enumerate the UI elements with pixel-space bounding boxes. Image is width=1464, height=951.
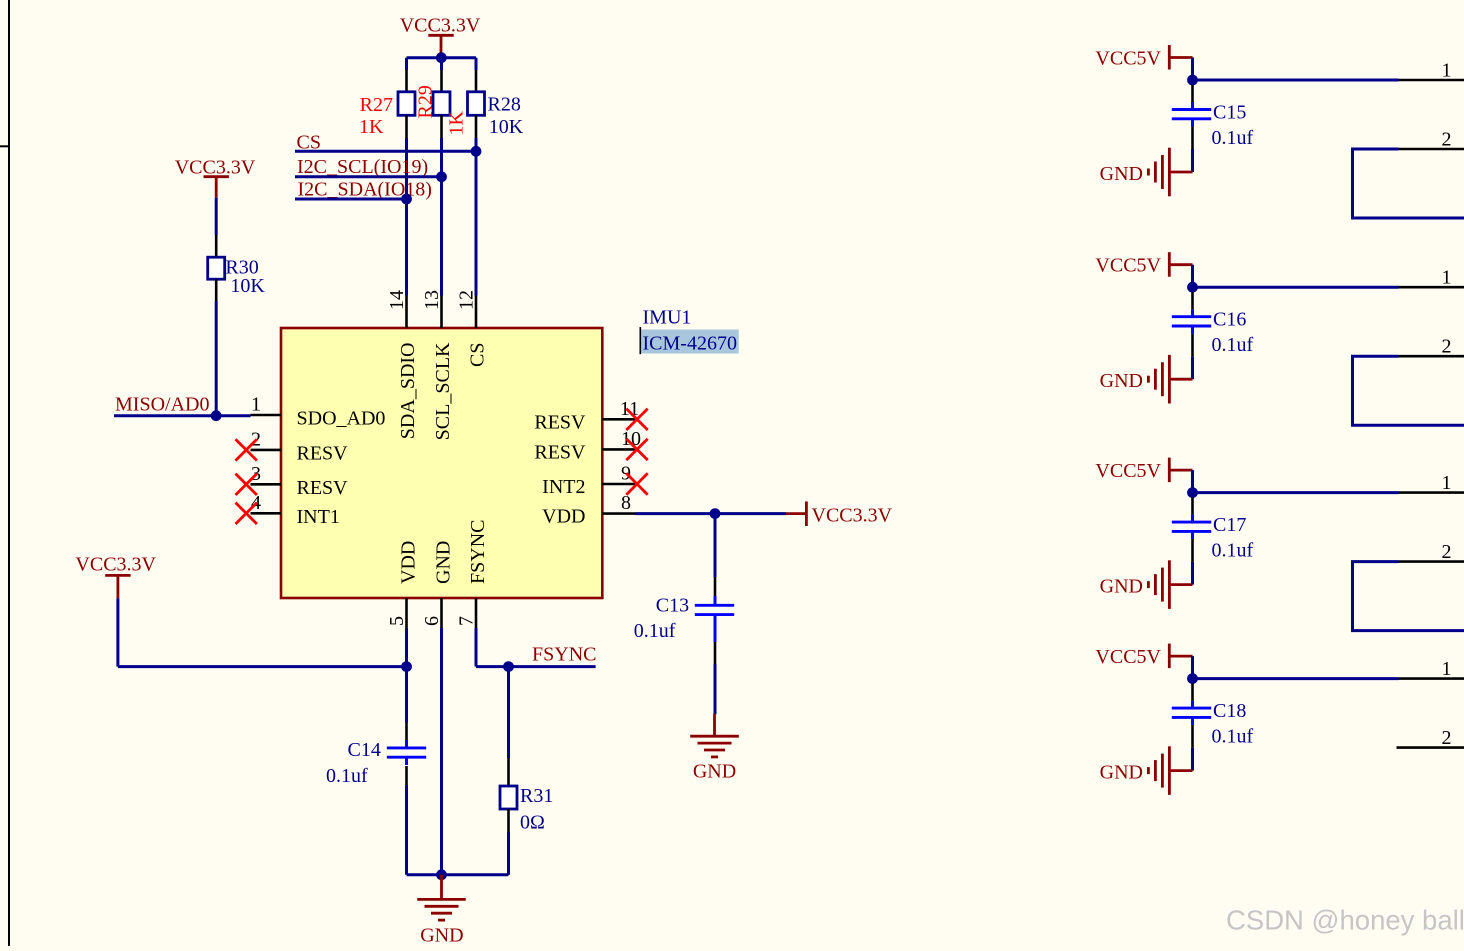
junction FSYNC-R31 <box>503 661 514 672</box>
junction VCC5V-C15 <box>1187 75 1198 86</box>
wire pin 1 net <box>1193 79 1399 82</box>
wire C13 to ground <box>714 664 717 715</box>
svg-text:R28: R28 <box>488 94 521 116</box>
wire R30 to MISO <box>215 301 218 416</box>
svg-text:R29: R29 <box>414 85 436 118</box>
resistor R27 <box>398 92 415 116</box>
svg-text:C16: C16 <box>1213 309 1246 331</box>
junction CS-R28 <box>471 146 482 157</box>
pin 13 line <box>440 296 443 329</box>
capacitor C13 <box>695 604 734 607</box>
power VCC3.3V stem (right) <box>786 512 806 515</box>
svg-text:0.1uf: 0.1uf <box>634 620 676 642</box>
pin 2 line (connector) <box>1397 746 1464 749</box>
power VCC5V stem (C15) <box>1169 56 1192 59</box>
wire C15 to ground <box>1191 149 1194 172</box>
wire junction to C13 <box>714 514 717 577</box>
svg-text:C18: C18 <box>1213 700 1246 722</box>
wire pin5 to junction <box>405 628 408 667</box>
wire pin 1 net <box>1193 286 1399 289</box>
no-connect X <box>626 473 647 494</box>
pin 9 line <box>602 483 635 486</box>
svg-text:VCC5V: VCC5V <box>1095 48 1161 70</box>
svg-text:VDD: VDD <box>542 506 585 528</box>
svg-text:2: 2 <box>1442 129 1452 151</box>
power VCC3.3V bar (top) <box>428 34 453 37</box>
wire top bus <box>407 56 477 59</box>
sheet border line <box>8 0 10 946</box>
svg-text:12: 12 <box>455 290 477 310</box>
wire net CS <box>295 150 476 153</box>
junction VCC5V-C16 <box>1187 282 1198 293</box>
pin 12 line <box>475 296 478 329</box>
pin 2 line <box>251 449 282 452</box>
junction SCL-R29 <box>436 171 447 182</box>
pin C14 top <box>405 722 408 741</box>
wire C17 to ground <box>1191 562 1194 585</box>
svg-text:7: 7 <box>455 616 477 626</box>
pin 7 line <box>475 598 478 628</box>
power VCC5V stem (C16) <box>1169 263 1192 266</box>
pin R31 top <box>507 758 510 786</box>
svg-text:INT1: INT1 <box>297 506 340 528</box>
svg-text:GND: GND <box>1100 370 1143 392</box>
junction top bus <box>436 52 447 63</box>
pin 14 line <box>405 296 408 329</box>
no-connect X <box>626 409 647 430</box>
svg-text:IMU1: IMU1 <box>643 307 692 329</box>
pin R30 bottom <box>215 279 218 301</box>
svg-text:I2C_SDA(IO18): I2C_SDA(IO18) <box>298 179 432 201</box>
pin R31 bottom <box>507 809 510 832</box>
pin stub C17 bottom <box>1191 531 1194 539</box>
svg-text:SDO_AD0: SDO_AD0 <box>297 408 386 430</box>
capacitor C14 <box>387 746 426 749</box>
pin 1 line <box>251 414 282 417</box>
pin 1 line (connector) <box>1399 286 1464 289</box>
svg-text:VCC3.3V: VCC3.3V <box>400 15 481 37</box>
svg-text:1: 1 <box>1442 472 1452 494</box>
wire column R28 to pin12 <box>475 138 478 296</box>
wire VCC3.3V to pin5 <box>118 665 407 668</box>
wire pin7 down <box>475 628 478 667</box>
wire bus drop <box>405 58 408 70</box>
svg-text:C13: C13 <box>656 595 689 617</box>
wire pin8 to junction <box>636 512 787 515</box>
svg-text:GND: GND <box>433 541 455 584</box>
svg-text:SCL_SCLK: SCL_SCLK <box>432 342 454 440</box>
pin 6 line <box>440 598 443 628</box>
power VCC3.3V bar (right) <box>805 502 808 527</box>
capacitor C17 <box>1172 521 1211 524</box>
pin C13 bottom <box>714 642 717 664</box>
pin C15 bottom <box>1191 127 1194 150</box>
ground stem (C18) <box>1169 769 1192 772</box>
svg-text:C17: C17 <box>1213 514 1246 536</box>
svg-text:VCC5V: VCC5V <box>1095 646 1161 668</box>
IC U-IMU1 body <box>281 328 602 598</box>
pin stub C17 top <box>1191 515 1194 523</box>
pin stub C13 top <box>714 596 717 605</box>
power VCC5V stem (C18) <box>1169 655 1192 658</box>
pin 2 line (connector) <box>1399 560 1464 563</box>
junction VCC5V-C18 <box>1187 673 1198 684</box>
junction SDA-R27 <box>401 194 412 205</box>
pin 4 line <box>251 512 282 515</box>
pin resistor top <box>405 70 408 92</box>
wire net I2C_SDA <box>295 198 407 201</box>
junction VDD-C13 <box>710 508 721 519</box>
text caret <box>639 327 641 354</box>
svg-text:2: 2 <box>1442 336 1452 358</box>
ground stem (bottom) <box>440 875 443 900</box>
pin 2 line (connector) <box>1399 148 1464 151</box>
svg-text:2: 2 <box>1442 541 1452 563</box>
pin stub C14 top <box>405 740 408 748</box>
wire C16 to ground <box>1191 356 1194 379</box>
resistor R28 <box>468 92 485 116</box>
svg-text:13: 13 <box>421 290 443 310</box>
svg-text:0.1uf: 0.1uf <box>1212 334 1254 356</box>
junction VDD-C14 <box>401 661 412 672</box>
svg-text:R31: R31 <box>520 785 553 807</box>
power VCC5V bar (C18) <box>1168 644 1171 669</box>
pin C18 bottom <box>1191 725 1194 748</box>
ground stem (C17) <box>1169 583 1192 586</box>
svg-text:FSYNC: FSYNC <box>532 644 596 666</box>
pin stub C15 top <box>1191 102 1194 110</box>
svg-text:1: 1 <box>251 394 261 416</box>
svg-text:GND: GND <box>420 925 463 947</box>
svg-text:10K: 10K <box>489 116 524 138</box>
wire bottom rail <box>407 873 509 876</box>
pin 8 line <box>602 512 635 515</box>
svg-text:0.1uf: 0.1uf <box>1212 127 1254 149</box>
wire pin6 to bottom rail <box>440 628 443 875</box>
pin 3 line <box>251 483 282 486</box>
wire R31 to bottom rail <box>507 832 510 875</box>
svg-text:SDA_SDIO: SDA_SDIO <box>397 343 419 440</box>
junction VCC5V-C17 <box>1187 487 1198 498</box>
wire VCC5V to junction <box>1191 58 1194 81</box>
pin stub C16 top <box>1191 309 1194 317</box>
pin 1 line (connector) <box>1399 79 1464 82</box>
power VCC5V stem (C17) <box>1169 469 1192 472</box>
no-connect X <box>236 503 257 524</box>
resistor R31 <box>500 786 517 809</box>
svg-text:VCC5V: VCC5V <box>1095 255 1161 277</box>
svg-text:9: 9 <box>621 463 631 485</box>
svg-text:RESV: RESV <box>297 477 349 499</box>
wire bus drop <box>440 58 443 70</box>
ground (C13) <box>690 735 739 738</box>
svg-text:2: 2 <box>1442 727 1452 749</box>
svg-text:R27: R27 <box>360 94 393 116</box>
resistor R29 <box>433 92 450 116</box>
wire FSYNC to R31 <box>507 667 510 758</box>
power VCC5V bar (C16) <box>1168 252 1171 277</box>
svg-text:6: 6 <box>421 616 443 626</box>
pin C15 top <box>1191 85 1194 102</box>
pin C16 top <box>1191 292 1194 309</box>
svg-text:C15: C15 <box>1213 102 1246 124</box>
no-connect X <box>236 439 257 460</box>
wire net MISO/AD0 <box>114 414 251 417</box>
pin stub C18 bottom <box>1191 717 1194 725</box>
pin resistor top <box>440 70 443 92</box>
no-connect X <box>626 439 647 460</box>
wire VCC5V to junction <box>1191 265 1194 288</box>
svg-text:RESV: RESV <box>534 441 586 463</box>
ground (C15) <box>1168 148 1171 197</box>
pin C13 top <box>714 577 717 596</box>
svg-text:1: 1 <box>1442 60 1452 82</box>
pin C17 top <box>1191 498 1194 515</box>
wire pin 1 net <box>1193 491 1399 494</box>
wire junction to C14 <box>405 667 408 722</box>
svg-text:CSDN @honey ball: CSDN @honey ball <box>1226 905 1464 936</box>
power VCC5V bar (C17) <box>1168 458 1171 483</box>
power VCC3.3V bar (bottom left) <box>105 574 130 577</box>
svg-text:CS: CS <box>467 343 489 367</box>
svg-text:1K: 1K <box>446 111 468 136</box>
wire VCC3.3V down <box>116 598 119 666</box>
svg-text:GND: GND <box>1100 576 1143 598</box>
svg-text:C14: C14 <box>348 739 381 761</box>
power VCC3.3V stem (R30) <box>215 177 218 198</box>
svg-text:VDD: VDD <box>398 541 420 584</box>
svg-text:11: 11 <box>620 398 639 420</box>
svg-text:1K: 1K <box>359 116 384 138</box>
ground (bottom) <box>417 898 466 901</box>
svg-text:0.1uf: 0.1uf <box>326 765 368 787</box>
pin stub C14 bottom <box>405 757 408 765</box>
wire C14 to bottom rail <box>405 785 408 875</box>
power VCC5V bar (C15) <box>1168 45 1171 70</box>
wire VCC5V to junction <box>1191 470 1194 493</box>
capacitor C18 <box>1172 707 1211 710</box>
pin stub C16 bottom <box>1191 326 1194 334</box>
svg-text:14: 14 <box>386 290 408 310</box>
wire column R29 to pin13 <box>440 138 443 296</box>
svg-text:GND: GND <box>1100 163 1143 185</box>
wire pin 2 net <box>1353 562 1464 631</box>
svg-text:1: 1 <box>1442 658 1452 680</box>
wire pin 2 net <box>1353 149 1464 218</box>
wire VCC3.3V to R30 <box>215 198 218 235</box>
ground stem (C15) <box>1169 171 1192 174</box>
pin 2 line (connector) <box>1399 355 1464 358</box>
pin C18 top <box>1191 684 1194 701</box>
resistor R30 <box>208 257 225 279</box>
svg-text:5: 5 <box>386 616 408 626</box>
svg-text:10K: 10K <box>230 275 265 297</box>
svg-text:VCC5V: VCC5V <box>1095 460 1161 482</box>
pin C14 bottom <box>405 766 408 785</box>
pin stub C15 bottom <box>1191 119 1194 127</box>
pin 5 line <box>405 598 408 628</box>
svg-text:0Ω: 0Ω <box>520 812 545 834</box>
ground (C18) <box>1168 746 1171 795</box>
capacitor C15 <box>1172 108 1211 111</box>
svg-text:MISO/AD0: MISO/AD0 <box>115 394 209 416</box>
pin resistor bottom <box>475 115 478 138</box>
pin stub C13 bottom <box>714 615 717 642</box>
power VCC3.3V bar (R30) <box>204 175 229 178</box>
pin 1 line (connector) <box>1399 677 1464 680</box>
pin resistor bottom <box>405 115 408 138</box>
svg-text:GND: GND <box>693 761 736 783</box>
ground (C16) <box>1168 355 1171 404</box>
wire pin 1 net <box>1193 677 1399 680</box>
pin 1 line (connector) <box>1399 491 1464 494</box>
wire net I2C_SCL <box>295 175 442 178</box>
svg-text:I2C_SCL(IO19): I2C_SCL(IO19) <box>297 156 428 178</box>
pin 10 line <box>602 448 635 451</box>
pin C17 bottom <box>1191 539 1194 562</box>
pin C16 bottom <box>1191 334 1194 357</box>
no-connect X <box>236 474 257 495</box>
svg-text:0.1uf: 0.1uf <box>1212 726 1254 748</box>
pin 11 line <box>602 418 635 421</box>
svg-text:8: 8 <box>621 492 631 514</box>
pin R30 top <box>215 235 218 257</box>
ground stem (C13) <box>713 714 716 737</box>
pin stub C18 top <box>1191 701 1194 709</box>
wire pin 2 net <box>1353 356 1464 425</box>
pin resistor top <box>475 70 478 92</box>
svg-text:INT2: INT2 <box>542 476 585 498</box>
pin resistor bottom <box>440 115 443 138</box>
wire net FSYNC <box>476 665 596 668</box>
svg-text:VCC3.3V: VCC3.3V <box>75 554 156 576</box>
power VCC3.3V stem (bottom left) <box>117 575 120 598</box>
wire VCC5V to junction <box>1191 656 1194 679</box>
svg-text:RESV: RESV <box>297 442 349 464</box>
wire stem to bus <box>440 53 443 59</box>
svg-text:1: 1 <box>1442 267 1452 289</box>
svg-text:RESV: RESV <box>534 411 586 433</box>
svg-text:VCC3.3V: VCC3.3V <box>175 157 256 179</box>
ground stem (C16) <box>1169 378 1192 381</box>
svg-text:VCC3.3V: VCC3.3V <box>812 505 893 527</box>
svg-text:0.1uf: 0.1uf <box>1212 540 1254 562</box>
sheet border tick <box>0 145 10 147</box>
wire C18 to ground <box>1191 748 1194 771</box>
selection highlight ICM-42670 <box>641 330 739 354</box>
svg-text:FSYNC: FSYNC <box>467 520 489 584</box>
power VCC3.3V stem <box>440 35 443 53</box>
svg-text:ICM-42670: ICM-42670 <box>643 333 737 355</box>
ground (C17) <box>1168 560 1171 609</box>
capacitor C16 <box>1172 315 1211 318</box>
junction bottom rail <box>436 869 447 880</box>
wire bus drop <box>475 58 478 70</box>
svg-text:GND: GND <box>1100 762 1143 784</box>
junction MISO-R30 <box>211 410 222 421</box>
wire column R27 to pin14 <box>405 138 408 296</box>
